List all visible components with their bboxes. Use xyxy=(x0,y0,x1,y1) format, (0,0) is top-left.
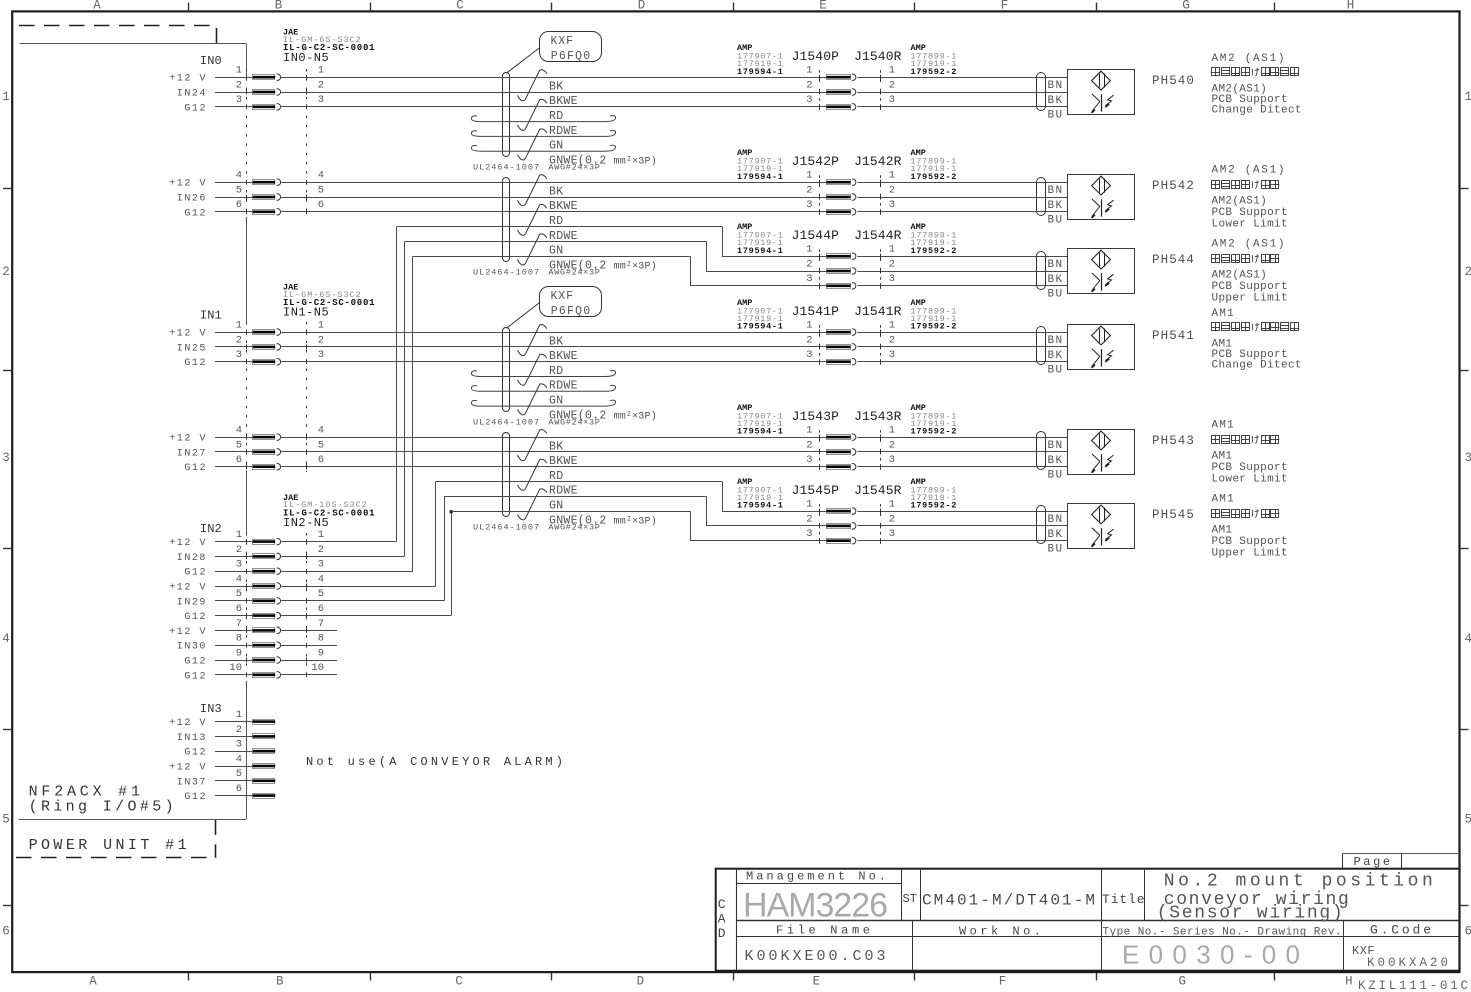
svg-text:G12: G12 xyxy=(184,748,207,759)
sensor PH541 lead labels BN/BK/BU xyxy=(1048,335,1064,377)
wire cable4 spare conductor 3 horizontal xyxy=(451,511,690,513)
svg-text:J1542P: J1542P xyxy=(792,154,840,169)
svg-text:6: 6 xyxy=(236,603,242,615)
svg-text:BK: BK xyxy=(1048,455,1064,467)
connector J1544R part labels xyxy=(911,222,958,256)
svg-text:4: 4 xyxy=(318,170,324,182)
svg-text:CM401-M/DT401-M: CM401-M/DT401-M xyxy=(922,892,1095,910)
sensor PH542 japanese description xyxy=(1212,180,1280,188)
svg-text:2: 2 xyxy=(806,334,812,346)
svg-text:Lower Limit: Lower Limit xyxy=(1212,473,1288,485)
connector J1543P/J1543R pin 3 wire xyxy=(806,454,1067,470)
connector J1545P/J1545R pin 3 wire xyxy=(690,528,1067,544)
svg-text:1: 1 xyxy=(806,170,812,182)
svg-text:E: E xyxy=(813,975,821,989)
connector J1543P/J1543R pin 1 wire xyxy=(806,425,1067,441)
svg-text:C: C xyxy=(718,897,726,912)
svg-text:BKWE: BKWE xyxy=(549,200,578,213)
wire cable2 spare conductor 2 horizontal xyxy=(404,241,706,243)
svg-text:2: 2 xyxy=(889,79,895,91)
svg-text:RDWE: RDWE xyxy=(549,125,578,138)
sensor PH544 japanese description xyxy=(1212,254,1280,262)
svg-text:BKWE: BKWE xyxy=(549,350,578,363)
svg-text:179592-2: 179592-2 xyxy=(911,67,958,77)
connector IN1 pin 4 (+12 V) wire xyxy=(169,425,826,445)
svg-text:1: 1 xyxy=(318,65,324,77)
svg-text:5: 5 xyxy=(236,768,242,780)
connector J1543P/J1543R housing dashed boundary xyxy=(820,430,881,473)
svg-text:+12 V: +12 V xyxy=(169,763,207,774)
svg-text:5: 5 xyxy=(318,184,324,196)
connector IN1 pin 2 (IN25) wire xyxy=(177,334,827,354)
connector J1542P/J1542R pin 3 wire xyxy=(806,199,1067,215)
svg-text:4: 4 xyxy=(236,753,242,765)
svg-text:4: 4 xyxy=(1465,632,1471,646)
sensor PH540 lead labels BN/BK/BU xyxy=(1048,80,1064,122)
cable 1 twisted-pair mark 1 xyxy=(518,70,547,101)
svg-text:BK: BK xyxy=(1048,200,1064,212)
connector J1544P/J1544R pin 1 wire xyxy=(722,244,1067,260)
svg-text:AWG#24×3P: AWG#24×3P xyxy=(548,163,600,173)
svg-text:179594-1: 179594-1 xyxy=(737,67,784,77)
connector J1544P/J1544R pin 3 wire xyxy=(690,273,1067,289)
connector J1541P/J1541R pin 2 wire xyxy=(806,334,1067,350)
sensor PH544 lead labels BN/BK/BU xyxy=(1048,259,1064,301)
svg-text:AM1: AM1 xyxy=(1212,450,1233,462)
svg-text:BK: BK xyxy=(549,80,563,93)
svg-text:RD: RD xyxy=(549,470,563,483)
svg-text:BK: BK xyxy=(549,440,563,453)
sensor PH540 japanese description xyxy=(1212,68,1300,77)
svg-text:3: 3 xyxy=(889,199,895,211)
connector IN1 pin 3 (G12) wire xyxy=(184,349,826,369)
connector IN0 pin 5 (IN26) wire xyxy=(177,184,827,204)
connector J1545P/J1545R pin 1 wire xyxy=(722,499,1067,515)
sensor PH542 phototransistor symbol xyxy=(1091,199,1114,219)
connector J1543P part labels xyxy=(737,403,784,437)
svg-text:9: 9 xyxy=(318,647,324,659)
connector IN2 housing dashed boundary xyxy=(247,533,307,681)
svg-text:Title: Title xyxy=(1102,892,1146,907)
page box xyxy=(1343,853,1460,869)
svg-text:BK: BK xyxy=(1048,274,1064,286)
svg-text:2: 2 xyxy=(806,258,812,270)
wire cable2 spare conductor 1 horizontal xyxy=(397,226,722,228)
sensor PH541 phototransistor symbol xyxy=(1091,349,1114,369)
svg-text:3: 3 xyxy=(806,454,812,466)
cable 3 KXF P6FQ0 balloon xyxy=(507,287,602,329)
svg-text:6: 6 xyxy=(236,454,242,466)
svg-text:G12: G12 xyxy=(184,792,207,803)
svg-text:1: 1 xyxy=(806,499,812,511)
sensor PH542 cable sheath xyxy=(1037,178,1046,216)
svg-text:179594-1: 179594-1 xyxy=(737,246,784,256)
connector J1544P/J1544R pin 2 wire xyxy=(706,258,1067,274)
NF2ACX unit top edge wire xyxy=(20,43,247,45)
svg-text:G12: G12 xyxy=(184,657,207,668)
svg-text:+12 V: +12 V xyxy=(169,538,207,549)
svg-text:Change Ditect: Change Ditect xyxy=(1212,105,1302,117)
svg-text:1: 1 xyxy=(806,320,812,332)
wire IN2 pin4 to cable4 RDWE (vertical) xyxy=(435,482,437,587)
svg-text:1: 1 xyxy=(806,244,812,256)
cable 3 twisted-pair mark 2 xyxy=(518,354,547,385)
connector IN3 pin 5 (IN37) wire xyxy=(177,768,275,788)
svg-text:J1541R: J1541R xyxy=(854,304,902,319)
svg-text:BN: BN xyxy=(1048,440,1064,452)
svg-text:mm²×3P): mm²×3P) xyxy=(614,410,657,422)
svg-text:+12 V: +12 V xyxy=(169,627,207,638)
connector IN2 pin 2 (IN28) wire xyxy=(177,544,405,564)
connector J1541P part labels xyxy=(737,298,784,332)
sensor PH544 phototransistor symbol xyxy=(1091,273,1114,293)
svg-text:2: 2 xyxy=(1465,265,1471,279)
svg-text:2: 2 xyxy=(889,334,895,346)
svg-text:1: 1 xyxy=(889,499,895,511)
svg-text:6: 6 xyxy=(318,603,324,615)
svg-text:BU: BU xyxy=(1048,110,1064,122)
svg-text:3: 3 xyxy=(889,528,895,540)
svg-text:AWG#24×3P: AWG#24×3P xyxy=(548,522,600,532)
svg-text:G12: G12 xyxy=(184,612,207,623)
sensor PH543 lead labels BN/BK/BU xyxy=(1048,440,1064,482)
svg-text:IN37: IN37 xyxy=(177,777,207,788)
svg-text:J1544P: J1544P xyxy=(792,228,840,243)
NF2ACX unit right edge (bus line) xyxy=(246,44,248,820)
svg-text:5: 5 xyxy=(318,588,324,600)
cable 3 conductor color labels xyxy=(549,335,657,422)
cable 4 twisted-pair mark 3 xyxy=(518,489,547,520)
svg-text:2: 2 xyxy=(2,265,10,279)
svg-text:3: 3 xyxy=(236,94,242,106)
svg-text:ST: ST xyxy=(903,892,917,906)
svg-text:4: 4 xyxy=(236,170,242,182)
grid column tick marks xyxy=(189,3,1275,981)
svg-text:P6FQ0: P6FQ0 xyxy=(551,305,592,318)
svg-text:Upper Limit: Upper Limit xyxy=(1212,293,1288,305)
svg-text:1: 1 xyxy=(236,529,242,541)
svg-text:10: 10 xyxy=(229,662,242,674)
svg-text:7: 7 xyxy=(318,618,324,630)
svg-text:mm²×3P): mm²×3P) xyxy=(614,260,657,272)
sensor PH545 phototransistor symbol xyxy=(1091,528,1114,548)
connector J1545P/J1545R pin 2 wire xyxy=(706,513,1067,529)
sensor PH544 cable sheath xyxy=(1037,252,1046,290)
sensor PH540 emitter diamond xyxy=(1092,71,1111,90)
cable 3 type label UL2464-1007 AWG#24x3P xyxy=(473,417,601,427)
svg-text:PCB Support: PCB Support xyxy=(1212,207,1288,219)
svg-text:2: 2 xyxy=(889,439,895,451)
connector J1542P part labels xyxy=(737,148,784,182)
svg-text:2: 2 xyxy=(806,439,812,451)
svg-text:C: C xyxy=(455,975,463,989)
wire cable4 spare conductor 3 drop xyxy=(690,511,692,541)
svg-text:1: 1 xyxy=(318,529,324,541)
cable 2 twisted-pair mark 2 xyxy=(518,204,547,235)
sensor PH540 phototransistor symbol xyxy=(1091,94,1114,114)
svg-text:179592-2: 179592-2 xyxy=(911,322,958,332)
svg-text:4: 4 xyxy=(318,573,324,585)
wire cable4 spare conductor 1 drop xyxy=(722,482,724,512)
connector J1545P/J1545R housing dashed boundary xyxy=(820,504,881,547)
svg-text:5: 5 xyxy=(1465,813,1471,827)
svg-text:2: 2 xyxy=(236,334,242,346)
svg-text:6: 6 xyxy=(1465,925,1471,939)
svg-text:UL2464-1007: UL2464-1007 xyxy=(473,522,540,532)
svg-text:UL2464-1007: UL2464-1007 xyxy=(473,268,540,278)
svg-text:GN: GN xyxy=(549,245,563,258)
sensor PH545 cable sheath xyxy=(1037,506,1046,544)
svg-text:5: 5 xyxy=(236,439,242,451)
svg-text:Upper Limit: Upper Limit xyxy=(1212,547,1288,559)
connector J1543P/J1543R pin 2 wire xyxy=(806,439,1067,455)
svg-text:5: 5 xyxy=(318,439,324,451)
svg-text:179594-1: 179594-1 xyxy=(737,322,784,332)
cable 2 conductor color labels xyxy=(549,185,657,272)
svg-text:3: 3 xyxy=(889,349,895,361)
cable 3 unused conductor stub 6 xyxy=(471,400,615,406)
sensor PH540 body outline xyxy=(1068,70,1135,115)
cable 4 sheath (UL2464-1007) xyxy=(503,433,510,517)
svg-text:J1540P: J1540P xyxy=(792,49,840,64)
sensor PH543 emitter diamond xyxy=(1092,431,1111,450)
cable 3 sheath (UL2464-1007) xyxy=(503,328,510,412)
svg-text:IN1: IN1 xyxy=(200,309,222,323)
connector J1541P/J1541R pin 1 wire xyxy=(806,320,1067,336)
svg-text:BKWE: BKWE xyxy=(549,455,578,468)
cable 2 twisted-pair mark 3 xyxy=(518,234,547,265)
svg-text:5: 5 xyxy=(2,813,10,827)
svg-text:KXF: KXF xyxy=(551,290,574,303)
svg-text:D: D xyxy=(637,975,645,989)
svg-text:J1544R: J1544R xyxy=(854,228,902,243)
svg-text:J1542R: J1542R xyxy=(854,154,902,169)
svg-text:4: 4 xyxy=(318,425,324,437)
svg-text:PCB Support: PCB Support xyxy=(1212,536,1288,548)
cable 4 conductor color labels xyxy=(549,440,657,527)
svg-text:1: 1 xyxy=(889,320,895,332)
grid row tick marks xyxy=(3,189,1469,906)
svg-text:BK: BK xyxy=(549,185,563,198)
grid column letters bottom xyxy=(89,975,1352,989)
svg-text:+12 V: +12 V xyxy=(169,718,207,729)
svg-text:G12: G12 xyxy=(184,358,207,369)
wire cable4 spare conductor 1 horizontal xyxy=(436,481,722,483)
svg-text:179592-2: 179592-2 xyxy=(911,172,958,182)
connector IN0 pin 3 (G12) wire xyxy=(184,94,826,114)
svg-text:UL2464-1007: UL2464-1007 xyxy=(473,417,540,427)
connector IN1 pin 6 (G12) wire xyxy=(184,454,826,474)
svg-text:3: 3 xyxy=(889,454,895,466)
svg-text:2: 2 xyxy=(318,79,324,91)
svg-text:A: A xyxy=(93,0,101,13)
svg-text:1: 1 xyxy=(236,709,242,721)
sensor PH541 emitter diamond xyxy=(1092,326,1111,345)
svg-text:2: 2 xyxy=(889,184,895,196)
power unit #1 dashed enclosure xyxy=(16,26,217,858)
svg-text:IN2: IN2 xyxy=(200,522,222,536)
svg-text:+12 V: +12 V xyxy=(169,179,207,190)
svg-text:2: 2 xyxy=(806,513,812,525)
sensor PH541 cable sheath xyxy=(1037,327,1046,365)
connector IN0 housing dashed boundary xyxy=(247,69,307,217)
connector J1540R part labels xyxy=(911,43,958,77)
svg-text:AM2(AS1): AM2(AS1) xyxy=(1212,269,1268,281)
cable 1 twisted-pair mark 2 xyxy=(518,99,547,130)
svg-text:BU: BU xyxy=(1048,470,1064,482)
cable 4 twisted-pair mark 1 xyxy=(518,430,547,461)
svg-text:1: 1 xyxy=(2,90,10,104)
connector IN0 pin 1 (+12 V) wire xyxy=(169,65,826,85)
svg-text:3: 3 xyxy=(236,349,242,361)
svg-text:+12 V: +12 V xyxy=(169,434,207,445)
sensor PH543 japanese description xyxy=(1212,435,1280,443)
sensor PH542 body outline xyxy=(1068,175,1135,220)
sensor PH542 emitter diamond xyxy=(1092,176,1111,195)
svg-text:6: 6 xyxy=(318,199,324,211)
svg-text:8: 8 xyxy=(236,633,242,645)
svg-text:AM2 (AS1): AM2 (AS1) xyxy=(1212,53,1287,65)
cable 4 twisted-pair mark 2 xyxy=(518,459,547,490)
sensor PH543 body outline xyxy=(1068,430,1135,475)
cable 1 type label UL2464-1007 AWG#24x3P xyxy=(473,163,601,173)
svg-text:Change Ditect: Change Ditect xyxy=(1212,359,1302,371)
connector IN2 pin 6 (G12) wire xyxy=(184,603,451,623)
svg-text:Lower Limit: Lower Limit xyxy=(1212,219,1288,231)
svg-text:IN29: IN29 xyxy=(177,597,207,608)
svg-text:RDWE: RDWE xyxy=(549,380,578,393)
svg-text:IN2-N5: IN2-N5 xyxy=(283,516,329,530)
cable 3 twisted-pair mark 1 xyxy=(518,325,547,356)
cable 1 twisted-pair mark 3 xyxy=(518,129,547,160)
svg-text:AM1: AM1 xyxy=(1212,420,1235,432)
wire IN2 pin3 to cable2 GNWE (vertical) xyxy=(412,256,414,571)
svg-text:AM1: AM1 xyxy=(1212,524,1233,536)
connector J1540P/J1540R pin 2 wire xyxy=(281,79,1067,95)
svg-text:BK: BK xyxy=(1048,529,1064,541)
svg-text:PH544: PH544 xyxy=(1152,253,1195,267)
svg-text:3: 3 xyxy=(2,451,10,465)
svg-text:PCB Support: PCB Support xyxy=(1212,281,1288,293)
svg-text:PH545: PH545 xyxy=(1152,508,1195,522)
svg-text:3: 3 xyxy=(889,94,895,106)
connector J1540P/J1540R pin 1 wire xyxy=(281,65,1067,81)
connector IN0 pin 6 (G12) wire xyxy=(184,199,826,219)
connector J1540P/J1540R pin 3 wire xyxy=(281,94,1067,110)
connector J1545R part labels xyxy=(911,477,958,511)
svg-text:9: 9 xyxy=(236,647,242,659)
connector IN2 pin 7 (+12 V) wire xyxy=(169,618,337,638)
svg-text:6: 6 xyxy=(2,925,10,939)
connector J1544P/J1544R housing dashed boundary xyxy=(820,249,881,292)
connector IN3 pin 3 (G12) wire xyxy=(184,739,275,759)
sensor PH545 body outline xyxy=(1068,504,1135,549)
connector IN3 pin 1 (+12 V) wire xyxy=(169,709,275,729)
svg-text:1: 1 xyxy=(806,65,812,77)
svg-text:IN24: IN24 xyxy=(177,89,207,100)
connector IN1 pin 1 (+12 V) wire xyxy=(169,320,826,340)
connector J1541R part labels xyxy=(911,298,958,332)
svg-text:179592-2: 179592-2 xyxy=(911,501,958,511)
svg-text:1: 1 xyxy=(318,320,324,332)
connector J1542P/J1542R pin 2 wire xyxy=(806,184,1067,200)
svg-text:2: 2 xyxy=(318,544,324,556)
connector IN0 pin 2 (IN24) wire xyxy=(177,79,827,99)
svg-text:BK: BK xyxy=(1048,350,1064,362)
svg-text:2: 2 xyxy=(236,79,242,91)
sensor PH543 cable sheath xyxy=(1037,432,1046,470)
svg-text:5: 5 xyxy=(236,588,242,600)
svg-text:H: H xyxy=(1347,0,1355,13)
svg-text:A: A xyxy=(718,912,726,927)
wire cable2 spare conductor 3 drop xyxy=(690,256,692,286)
svg-text:RDWE: RDWE xyxy=(549,230,578,243)
svg-text:IN26: IN26 xyxy=(177,194,207,205)
svg-text:3: 3 xyxy=(318,94,324,106)
svg-text:4: 4 xyxy=(236,425,242,437)
svg-text:AM1: AM1 xyxy=(1212,308,1235,320)
connector J1544P part labels xyxy=(737,222,784,256)
svg-text:7: 7 xyxy=(236,618,242,630)
svg-text:A: A xyxy=(89,975,97,989)
svg-text:4: 4 xyxy=(2,632,10,646)
svg-text:2: 2 xyxy=(889,258,895,270)
cable 2 twisted-pair mark 1 xyxy=(518,175,547,206)
svg-text:IN25: IN25 xyxy=(177,343,207,354)
svg-text:PH542: PH542 xyxy=(1152,179,1195,193)
svg-text:J1540R: J1540R xyxy=(854,49,902,64)
svg-text:3: 3 xyxy=(318,349,324,361)
cable 1 unused conductor stub 4 xyxy=(471,116,615,122)
svg-text:F: F xyxy=(999,975,1007,989)
grid column letters top xyxy=(93,0,1354,13)
cable 2 type label UL2464-1007 AWG#24x3P xyxy=(473,268,601,278)
svg-text:PCB Support: PCB Support xyxy=(1212,462,1288,474)
svg-text:IN27: IN27 xyxy=(177,448,207,459)
sensor PH542 lead labels BN/BK/BU xyxy=(1048,185,1064,227)
svg-text:179594-1: 179594-1 xyxy=(737,172,784,182)
label CAD xyxy=(718,897,726,941)
svg-text:10: 10 xyxy=(311,662,324,674)
svg-text:H: H xyxy=(1345,975,1353,989)
connector IN2 pin 10 (G12) wire xyxy=(184,662,337,682)
svg-text:3: 3 xyxy=(318,559,324,571)
svg-text:IN0: IN0 xyxy=(200,54,222,68)
svg-text:3: 3 xyxy=(236,559,242,571)
svg-text:PH541: PH541 xyxy=(1152,329,1195,343)
wire cable2 spare conductor 1 drop xyxy=(722,227,724,257)
wire cable4 spare conductor 2 horizontal xyxy=(444,496,706,498)
svg-text:BN: BN xyxy=(1048,259,1064,271)
svg-text:BU: BU xyxy=(1048,544,1064,556)
svg-text:(Sensor wiring): (Sensor wiring) xyxy=(1157,904,1343,924)
svg-text:1: 1 xyxy=(806,425,812,437)
svg-text:J1541P: J1541P xyxy=(792,304,840,319)
cable 1 sheath (UL2464-1007) xyxy=(503,73,510,157)
connector J1540P part labels xyxy=(737,43,784,77)
svg-text:GN: GN xyxy=(549,395,563,408)
svg-text:3: 3 xyxy=(806,94,812,106)
svg-text:J1543P: J1543P xyxy=(792,409,840,424)
title block grid xyxy=(716,869,1460,971)
svg-text:179594-1: 179594-1 xyxy=(737,501,784,511)
sensor PH543 phototransistor symbol xyxy=(1091,454,1114,474)
connector J1545P part labels xyxy=(737,477,784,511)
svg-text:J1545P: J1545P xyxy=(792,483,840,498)
svg-text:KZIL111-01C: KZIL111-01C xyxy=(1358,979,1468,992)
connector IN1 housing dashed boundary xyxy=(247,322,307,472)
svg-text:GN: GN xyxy=(549,140,563,153)
